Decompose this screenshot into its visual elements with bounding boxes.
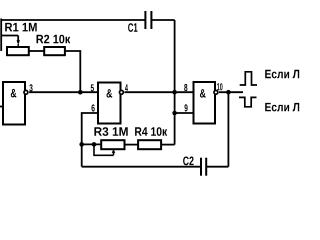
label R2 10k [37,35,71,44]
wire output [219,91,243,93]
wire gate1 input stub [0,106,3,108]
node A junction R2/pin3/pin5 [78,90,83,95]
NAND gate DD1.3 [194,82,218,124]
resistor R1 (variable) [7,40,29,55]
waveform negative pulse [239,97,257,106]
pin 5 [91,84,94,91]
wire R4 right [161,144,175,146]
node C1/pin8 [172,90,177,95]
node pin9 [172,111,177,116]
pin 3 [29,84,32,91]
wire pin4 to pin8 [125,91,194,93]
pin 8 [184,84,187,91]
wire R3 row left [82,143,102,145]
node R3 wiper [92,142,97,147]
capacitor C2 [201,158,206,176]
gate symbol & DD1.3 [200,89,206,98]
node output/C2 [226,90,231,95]
NAND gate DD1.2 [98,83,123,124]
pin 4 [125,84,128,91]
wire R1 to R2 [29,50,44,52]
NAND gate DD1.1 [3,82,28,125]
wire R2 to main node [65,51,80,92]
label R3 1M [94,127,127,136]
node pin6/R3 [79,142,84,147]
wire pin9 [175,112,194,114]
label R4 10k [135,127,167,136]
wire C2 to bottom rail [82,166,201,168]
wire top rail [1,19,145,52]
gate symbol & DD1.1 [11,89,16,98]
gate symbol & DD1.2 [107,89,113,98]
waveform positive pulse [240,72,257,85]
capacitor C1 [145,11,151,29]
wire C1 to node B [151,20,174,145]
label Esli L bottom [265,103,299,112]
wire pin3 to pin5 [29,91,98,93]
pin 9 [185,104,188,111]
resistor R2 [44,47,65,55]
label C1 [128,23,137,32]
wire output to C2 [206,92,228,167]
label Esli L top [265,70,299,79]
wire R1 wiper tie [1,36,18,44]
wire R3 to R4 [125,144,139,146]
pin 10 [217,83,222,90]
pin 6 [92,104,95,111]
resistor R4 [138,140,161,149]
label C2 [183,157,194,166]
resistor R3 (variable) [94,140,125,155]
label R1 1M [5,23,37,32]
wire pin6 branch [82,113,98,167]
